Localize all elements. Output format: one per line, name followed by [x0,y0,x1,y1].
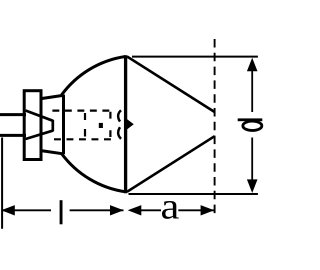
reflector bottom arc [62,154,126,192]
dimension a arrow right [201,205,215,215]
neck top edge [41,95,63,98]
dimension l line right segment [70,209,124,211]
capsule dashed bottom edge [54,138,111,140]
dimension d line upper segment [251,71,253,113]
label a [162,201,179,219]
reflector back vertical [62,95,65,155]
extension line left [1,138,3,229]
pin upper [0,113,26,116]
dimension d arrow up [247,58,258,72]
filament square [99,123,103,128]
capsule inner dashed vertical [84,113,86,137]
dimension l arrow right [110,205,124,215]
dimension d line lower segment [251,138,253,183]
neck bottom edge [41,151,63,154]
beam lower diagonal [127,136,215,192]
capsule tip hook upper [118,110,121,121]
focal plane dashed line [214,39,216,215]
dimension d arrow down [247,179,258,193]
pin lower [0,134,26,137]
press seal wedge bottom edge [26,131,54,139]
dimension l line left segment [2,209,51,211]
capsule dashed top edge [52,109,110,111]
capsule tip point through rim [127,119,134,130]
dimension a arrow left [128,205,142,215]
label d stem [238,118,263,121]
base rectangle [24,91,41,160]
reflector top arc [62,57,126,96]
beam upper diagonal [127,57,215,113]
reflector rim front edge [124,55,127,193]
top screen line [132,56,258,58]
capsule right dashed vertical [109,112,111,137]
press seal wedge tip cap [51,120,54,131]
bottom screen line [129,193,258,195]
dimension a line right segment [178,209,214,211]
label d bowl [243,121,262,130]
dimension a line left segment [140,209,161,211]
dimension l arrow left [1,205,15,215]
label l [60,200,63,224]
capsule tip hook lower [118,127,121,139]
press seal wedge top edge [26,111,54,121]
